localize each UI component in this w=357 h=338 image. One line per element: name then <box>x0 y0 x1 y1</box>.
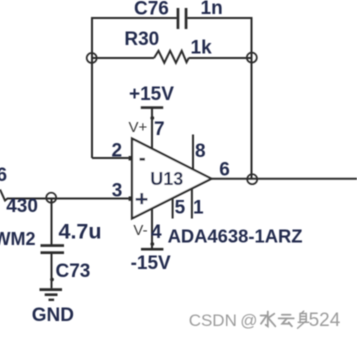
svg-text:V-: V- <box>133 222 147 239</box>
svg-text:8: 8 <box>195 141 206 162</box>
svg-text:WM2: WM2 <box>0 229 36 249</box>
svg-text:1: 1 <box>193 197 204 218</box>
svg-text:7: 7 <box>154 119 165 140</box>
svg-text:4.7u: 4.7u <box>59 219 102 243</box>
svg-text:5: 5 <box>175 197 186 218</box>
svg-text:+15V: +15V <box>129 84 174 105</box>
svg-text:CSDN: CSDN <box>189 311 237 330</box>
svg-text:6: 6 <box>219 159 230 180</box>
svg-text:4: 4 <box>151 222 162 243</box>
svg-text:1k: 1k <box>191 38 213 59</box>
svg-text:V+: V+ <box>129 119 148 136</box>
svg-text:@: @ <box>240 311 257 330</box>
svg-text:524: 524 <box>309 310 341 331</box>
svg-text:C76: C76 <box>134 0 169 20</box>
svg-text:C73: C73 <box>56 261 91 282</box>
svg-text:ADA4638-1ARZ: ADA4638-1ARZ <box>168 226 303 247</box>
svg-text:2: 2 <box>112 140 123 161</box>
svg-text:GND: GND <box>32 305 74 326</box>
svg-text:3: 3 <box>112 181 123 202</box>
svg-text:R30: R30 <box>124 29 159 50</box>
svg-text:1n: 1n <box>201 0 223 19</box>
svg-text:6: 6 <box>0 165 7 186</box>
svg-text:U13: U13 <box>150 169 183 189</box>
svg-text:-15V: -15V <box>131 253 171 274</box>
svg-text:430: 430 <box>6 196 38 217</box>
